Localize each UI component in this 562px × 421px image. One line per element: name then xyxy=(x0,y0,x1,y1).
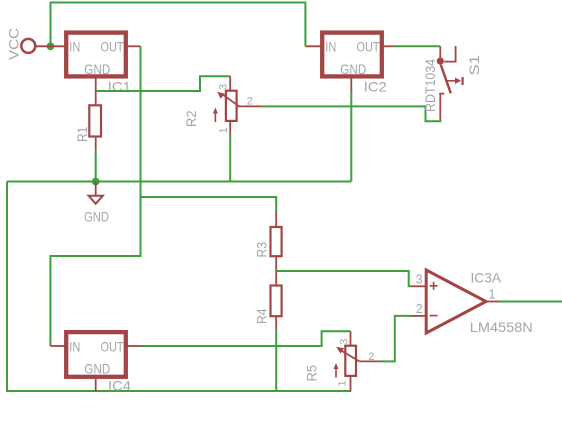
node VCC junction xyxy=(47,42,55,50)
IC2 OUT pin stub xyxy=(384,45,395,47)
resistor R3 body xyxy=(271,227,282,256)
S1 actuator arrow xyxy=(446,80,456,82)
op-amp - input mark xyxy=(430,315,438,317)
op-amp IC3A triangle xyxy=(426,270,486,333)
svg-text:R1: R1 xyxy=(74,126,90,142)
switch S1 common pin xyxy=(439,46,441,57)
R5 pin 1 stub xyxy=(350,376,352,392)
ground symbol GND stub xyxy=(95,182,97,196)
R1 pin 2 stub xyxy=(95,137,97,151)
regulator IC4 box xyxy=(66,332,126,377)
IC4 GND pin stub xyxy=(95,379,97,392)
wire GND rail horizontal xyxy=(7,181,351,183)
op-amp + input mark xyxy=(430,282,438,290)
R5 pin 3 stub xyxy=(350,331,352,346)
svg-text:OUT: OUT xyxy=(101,339,124,355)
wire VCC top rail xyxy=(51,3,306,47)
resistor R1 body xyxy=(89,105,101,136)
wire IC4 OUT to R5.3 xyxy=(141,331,351,346)
svg-text:GND: GND xyxy=(84,209,109,225)
regulator IC1 box xyxy=(66,33,126,77)
VCC supply symbol P1 xyxy=(21,39,35,53)
wire IC2 OUT to S1 xyxy=(395,45,441,47)
IC2 IN pin stub xyxy=(305,45,322,47)
svg-text:R5: R5 xyxy=(304,365,320,382)
svg-text:GND: GND xyxy=(84,61,110,77)
wire branch IC1 OUT to R3 xyxy=(141,197,277,212)
svg-text:1: 1 xyxy=(489,288,496,302)
regulator IC2 box xyxy=(322,33,382,77)
wire net IC1 OUT vertical drop xyxy=(50,46,140,346)
svg-text:IC3A: IC3A xyxy=(471,270,502,286)
svg-text:R2: R2 xyxy=(183,110,199,127)
wire R4 to bottom rail xyxy=(275,330,277,391)
svg-text:IC4: IC4 xyxy=(108,377,131,393)
svg-text:VCC: VCC xyxy=(6,28,22,60)
wire net R2.3 from IC1 GND xyxy=(96,76,231,91)
svg-text:IN: IN xyxy=(69,39,80,55)
svg-text:3: 3 xyxy=(416,273,423,287)
R5 pin 2 stub xyxy=(359,360,380,362)
svg-text:IC2: IC2 xyxy=(364,78,387,94)
S1 pivot dot xyxy=(437,58,444,65)
svg-text:1: 1 xyxy=(218,127,230,133)
svg-text:OUT: OUT xyxy=(101,39,124,55)
IC1 GND pin stub to R1 pin 1 xyxy=(95,79,97,106)
svg-text:GND: GND xyxy=(340,61,366,77)
svg-text:R3: R3 xyxy=(253,242,269,258)
R2 pin 3 stub xyxy=(229,76,231,90)
R2 pin 2 stub xyxy=(238,105,261,107)
wire GND left drop and bottom rail xyxy=(7,182,351,392)
svg-text:1: 1 xyxy=(337,380,349,386)
wire R5.2 to op-amp - xyxy=(381,316,412,362)
svg-text:2: 2 xyxy=(416,302,423,316)
node GND junction xyxy=(92,178,100,186)
wire R3/R4 tap to op-amp + xyxy=(276,271,411,286)
IC1 OUT pin stub xyxy=(128,45,141,47)
ground symbol triangle xyxy=(89,196,103,204)
S1 lever xyxy=(441,65,451,94)
R5 wiper arrow xyxy=(342,351,359,361)
S1 lower pin xyxy=(439,94,441,120)
R5 adjust arrow xyxy=(335,367,337,378)
svg-text:OUT: OUT xyxy=(357,39,380,55)
potentiometer R2 body xyxy=(226,91,237,121)
R2 wiper arrow xyxy=(223,94,240,106)
svg-text:2: 2 xyxy=(247,96,253,108)
S1 actuator bar xyxy=(462,77,464,85)
op-amp pin 2 stub xyxy=(411,315,425,317)
svg-text:IN: IN xyxy=(325,39,336,55)
svg-text:3: 3 xyxy=(338,339,350,345)
S1 upper contact xyxy=(444,46,455,62)
wire IC2 GND to rail xyxy=(350,91,352,182)
svg-text:RDT1034: RDT1034 xyxy=(422,59,438,112)
resistor R4 body xyxy=(271,286,282,317)
svg-text:R4: R4 xyxy=(253,308,269,324)
potentiometer R5 body xyxy=(345,346,356,376)
IC4 OUT pin stub xyxy=(128,345,141,347)
svg-text:LM4558N: LM4558N xyxy=(470,319,533,335)
svg-text:GND: GND xyxy=(84,360,110,376)
IC4 IN pin stub xyxy=(50,345,66,347)
op-amp output pin stub xyxy=(486,301,500,303)
svg-text:IN: IN xyxy=(69,339,80,355)
wire op-amp output xyxy=(500,301,562,303)
wire net R2.2 to S1 xyxy=(261,106,440,121)
R2 pin 1 stub xyxy=(229,121,231,134)
svg-text:2: 2 xyxy=(368,351,374,363)
wire VCC pin to IC1 IN xyxy=(35,45,66,47)
svg-text:3: 3 xyxy=(218,84,230,90)
R4 pin 2 stub xyxy=(275,316,277,330)
S1 lower contact xyxy=(439,93,444,95)
svg-text:S1: S1 xyxy=(466,55,482,76)
R3 pin 1 stub xyxy=(275,212,277,228)
IC2 GND pin stub xyxy=(350,79,352,92)
op-amp pin 3 stub xyxy=(411,285,425,287)
wire R1 to GND junction xyxy=(95,150,97,182)
R3 pin 2 to R4 pin 1 xyxy=(275,256,277,285)
wire R2.1 to GND rail xyxy=(229,134,231,182)
R2 adjust arrow xyxy=(214,111,216,122)
